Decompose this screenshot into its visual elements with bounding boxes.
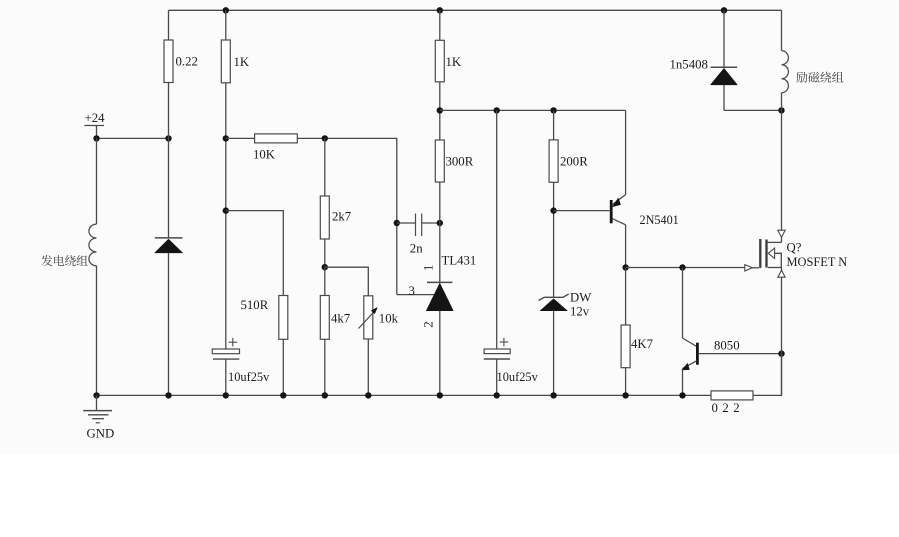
junction supply mid rail left end bbox=[437, 107, 443, 113]
inductor field winding 励磁绕组 bbox=[782, 51, 789, 93]
transistor Q2 8050 bbox=[682, 338, 740, 370]
svg-text:3: 3 bbox=[409, 284, 415, 298]
resistor 1K (right) bbox=[435, 10, 462, 82]
svg-text:2: 2 bbox=[422, 321, 436, 327]
junction 10K / 2k7 bbox=[322, 135, 328, 141]
junction top rail / 1K right bbox=[437, 7, 443, 13]
wire 4K7 to bottom rail bbox=[625, 368, 627, 396]
resistor 200R bbox=[549, 110, 588, 182]
svg-text:1: 1 bbox=[422, 265, 436, 271]
wire right rail top bbox=[781, 10, 783, 50]
junction bottom / zener bbox=[550, 392, 556, 398]
svg-text:10uf25v: 10uf25v bbox=[228, 370, 270, 384]
junction base / source rail bbox=[778, 350, 784, 356]
wire divider to pot bbox=[325, 267, 369, 296]
resistor 1K (left) bbox=[221, 10, 250, 83]
svg-text:10k: 10k bbox=[379, 312, 399, 326]
svg-text:10K: 10K bbox=[253, 148, 276, 162]
wire 1K left to bottom cap bbox=[225, 83, 227, 349]
junction mid rail / 200R bbox=[550, 107, 556, 113]
junction mid rail / cap2 bbox=[494, 107, 500, 113]
capacitor C1 10uf25v bbox=[212, 338, 239, 359]
wire 510R to bottom rail bbox=[282, 339, 284, 395]
wire 510R tap bbox=[226, 211, 283, 296]
op-amp U1 TL431 bbox=[426, 253, 476, 310]
svg-text:200R: 200R bbox=[560, 154, 588, 168]
transistor Q1 2N5401 bbox=[611, 195, 679, 228]
zener diode DW 12v bbox=[539, 291, 593, 319]
diode D1 (freewheel, left) bbox=[155, 238, 183, 253]
svg-text:1n5408: 1n5408 bbox=[670, 57, 708, 71]
junction bottom / C1 bbox=[223, 392, 229, 398]
junction bottom / pot bbox=[365, 392, 371, 398]
resistor 2k7 bbox=[320, 138, 351, 239]
junction gate wire / 4K7 bbox=[622, 264, 628, 270]
diode 1n5408 bbox=[670, 10, 738, 110]
svg-text:2N5401: 2N5401 bbox=[640, 213, 679, 227]
junction top rail / 1K left bbox=[223, 7, 229, 13]
wire 8050 emitter to bottom rail bbox=[682, 369, 684, 396]
capacitor C2 10uf25v bbox=[484, 338, 510, 359]
svg-text:DW: DW bbox=[570, 291, 592, 305]
wire 022 to source rail bbox=[753, 354, 782, 396]
junction 1K rail / +24 level bbox=[223, 135, 229, 141]
svg-text:1K: 1K bbox=[234, 55, 250, 69]
svg-text:2k7: 2k7 bbox=[332, 210, 352, 224]
svg-text:8050: 8050 bbox=[714, 339, 740, 353]
svg-text:12v: 12v bbox=[570, 305, 590, 319]
wire 4k7 to bottom rail bbox=[324, 339, 326, 395]
svg-text:022: 022 bbox=[712, 401, 745, 415]
junction bottom / C2 bbox=[494, 392, 500, 398]
wire gate arrow bbox=[745, 265, 759, 271]
wire 10K to ref column bbox=[297, 138, 397, 294]
wire 2N5401 emitter to mid rail bbox=[625, 110, 627, 194]
resistor 510R bbox=[241, 296, 288, 340]
wire +24 node bbox=[97, 137, 169, 139]
wire field winding to MOSFET drain bbox=[781, 93, 783, 231]
transistor Q? MOSFET N bbox=[760, 230, 847, 269]
junction 2n / TL431 column bbox=[437, 220, 443, 226]
capacitor 2n bbox=[397, 214, 440, 256]
junction +24 / left rail bbox=[93, 135, 99, 141]
wire zener to bottom rail bbox=[553, 311, 555, 396]
wire left rail lower bbox=[96, 266, 98, 396]
svg-text:Q?: Q? bbox=[787, 240, 802, 254]
junction gate wire / 8050 collector bbox=[679, 264, 685, 270]
junction bottom / left rail bbox=[93, 392, 99, 398]
wire gate row bbox=[626, 267, 746, 269]
resistor 022 (current sense) bbox=[711, 391, 753, 415]
junction bottom / 4K7 right bbox=[622, 392, 628, 398]
net label +24 bbox=[84, 111, 105, 138]
resistor 4K7 bbox=[621, 268, 654, 368]
potentiometer 10k bbox=[359, 296, 399, 339]
svg-text:300R: 300R bbox=[446, 154, 474, 168]
wire 200R to zener bbox=[553, 182, 555, 297]
junction divider node bbox=[322, 264, 328, 270]
wire 0.22 to diode bbox=[168, 83, 170, 238]
svg-text:0.22: 0.22 bbox=[176, 55, 198, 69]
resistor 10K bbox=[253, 134, 297, 162]
wire C1 to bottom rail bbox=[225, 359, 227, 395]
junction bottom / diode rail bbox=[165, 392, 171, 398]
wire left rail upper bbox=[96, 138, 98, 224]
junction top rail / 1n5408 bbox=[721, 7, 727, 13]
ground GND bbox=[83, 395, 114, 440]
wire bottom rail bbox=[97, 394, 712, 396]
svg-text:2n: 2n bbox=[410, 242, 423, 256]
wire 1K right to 300R bbox=[439, 82, 441, 140]
wire cap2 rail bbox=[496, 110, 498, 349]
svg-text:10uf25v: 10uf25v bbox=[497, 370, 539, 384]
wire 10K row bbox=[226, 137, 255, 139]
wire C2 to bottom rail bbox=[496, 359, 498, 395]
resistor 4k7 bbox=[320, 267, 350, 339]
wire supply mid rail bbox=[440, 109, 626, 111]
junction bottom / 510R bbox=[280, 392, 286, 398]
svg-text:4K7: 4K7 bbox=[631, 337, 654, 351]
label 励磁绕组 bbox=[796, 72, 843, 83]
wire TL431 anode to bottom rail bbox=[439, 311, 441, 396]
wire 2k7 to divider node bbox=[324, 239, 326, 267]
pin arrow source bbox=[778, 270, 785, 277]
wire TL431 ref pin 3 bbox=[397, 294, 434, 296]
inductor generator winding 发电绕组 bbox=[89, 224, 97, 266]
wire 300R to TL431 bbox=[439, 182, 441, 282]
junction ref column / 2n bbox=[394, 220, 400, 226]
svg-text:MOSFET N: MOSFET N bbox=[787, 255, 848, 269]
wire pot to bottom rail bbox=[367, 339, 369, 395]
svg-text:510R: 510R bbox=[241, 298, 269, 312]
junction bottom / 4k7 bbox=[322, 392, 328, 398]
junction bottom / TL431 bbox=[437, 392, 443, 398]
resistor 300R bbox=[435, 140, 473, 182]
wire 8050 base bbox=[699, 353, 782, 355]
wire top rail bbox=[169, 9, 782, 11]
svg-text:GND: GND bbox=[87, 426, 115, 440]
wire MOSFET source down bbox=[781, 268, 783, 396]
junction +24 / diode rail bbox=[165, 135, 171, 141]
wire 1n5408 anode to field node bbox=[724, 109, 782, 111]
label 发电绕组 bbox=[41, 255, 87, 266]
resistor 0.22 bbox=[164, 10, 198, 82]
junction field node bbox=[778, 107, 784, 113]
svg-text:TL431: TL431 bbox=[442, 253, 477, 267]
wire diode to bottom rail bbox=[168, 253, 170, 396]
junction 1K rail / 510R tap bbox=[223, 207, 229, 213]
svg-text:4k7: 4k7 bbox=[331, 312, 351, 326]
junction 200R / base wire bbox=[550, 207, 556, 213]
svg-text:1K: 1K bbox=[446, 55, 462, 69]
wire 2N5401 collector to gate node bbox=[625, 225, 627, 268]
svg-text:+24: +24 bbox=[85, 111, 106, 125]
wire 2N5401 base bbox=[554, 210, 610, 212]
junction bottom / 8050 emitter bbox=[679, 392, 685, 398]
wire 8050 collector up bbox=[682, 268, 684, 339]
